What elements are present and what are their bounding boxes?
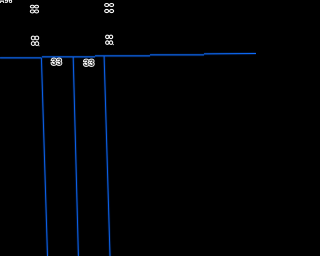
- svg-text:33: 33: [51, 57, 62, 68]
- svg-text:A96: A96: [0, 0, 12, 5]
- svg-text:33: 33: [84, 58, 95, 69]
